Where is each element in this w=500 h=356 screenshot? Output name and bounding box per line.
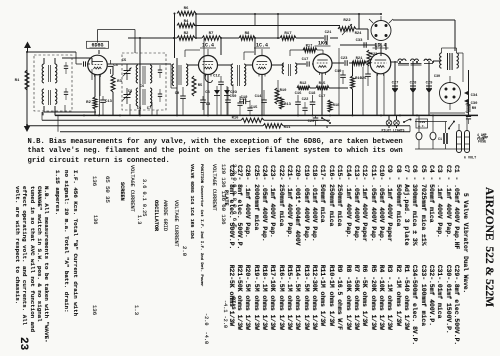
capacitor C13b xyxy=(100,99,106,101)
wire x55 stub xyxy=(54,108,56,115)
resistor R17b xyxy=(303,48,317,52)
valve 1D4 xyxy=(370,53,391,74)
IF T2 core xyxy=(237,65,239,86)
svg-text:R21: R21 xyxy=(356,57,364,61)
svg-text:C17: C17 xyxy=(302,58,310,62)
svg-text:C18: C18 xyxy=(309,92,317,96)
resistor R20 xyxy=(351,76,355,89)
capacitor C32 electrolytic xyxy=(443,133,445,144)
wire vertical x140 xyxy=(139,38,141,115)
svg-text:C25: C25 xyxy=(360,77,368,81)
capacitor C14 xyxy=(261,99,267,101)
switch corner xyxy=(449,122,454,129)
wire vertical x255 xyxy=(254,38,256,55)
wire vertical x196 xyxy=(195,14,197,39)
voltage table rotated xyxy=(91,176,97,186)
svg-text:R17: R17 xyxy=(284,32,292,36)
coil osc1 core xyxy=(142,66,144,84)
wire bus y125.8 left xyxy=(27,125,263,127)
ground arrow xyxy=(26,118,28,126)
capacitor C30 xyxy=(464,99,468,103)
choke L5 xyxy=(398,59,406,61)
resistor R18 xyxy=(328,100,332,112)
svg-text:6D8G: 6D8G xyxy=(91,43,103,49)
capacitor C21 xyxy=(324,35,326,41)
resistor R8 xyxy=(239,36,255,40)
wire y58 coil to tube xyxy=(62,57,92,59)
wire x278 drop xyxy=(277,80,279,96)
wire left bus verticals xyxy=(41,112,43,120)
wire bus y125.8 right xyxy=(283,125,410,127)
capacitor C23 xyxy=(344,60,346,66)
svg-text:C7: C7 xyxy=(147,107,152,111)
wire R3 xyxy=(112,66,114,75)
wire 6D8G cathode xyxy=(91,69,93,80)
svg-text:C4: C4 xyxy=(113,64,118,68)
wire y40 to vibrator xyxy=(356,28,368,30)
coil L1 primary xyxy=(42,64,44,83)
svg-text:C30: C30 xyxy=(434,75,440,79)
page number 23 xyxy=(18,337,28,350)
capacitor C3g xyxy=(83,61,85,66)
variable capacitor C7 xyxy=(126,88,128,95)
svg-text:C30: C30 xyxy=(471,102,479,106)
wire coil box verticals xyxy=(42,112,44,115)
capacitor C19 xyxy=(340,74,346,76)
wire x352 down xyxy=(352,63,354,76)
subtitle 5 Valve Vibrator Dual Wave xyxy=(462,193,469,293)
pilot light 2 xyxy=(394,120,400,126)
capacitor C11 xyxy=(218,81,224,83)
capacitor C27 electrolytic xyxy=(392,85,398,87)
wire top bus y14 xyxy=(196,13,381,15)
wire x322 tube bottom xyxy=(321,73,323,115)
wire IF2 to 1C4b xyxy=(246,64,252,66)
AC box xyxy=(416,119,428,128)
capacitor C13 xyxy=(237,102,242,104)
capacitor C15 xyxy=(247,107,252,109)
svg-text:C19: C19 xyxy=(335,70,343,74)
svg-text:1K6: 1K6 xyxy=(318,41,327,47)
svg-text:C29: C29 xyxy=(426,82,434,86)
svg-text:C2O: C2O xyxy=(230,91,238,95)
resistor R9 vertical xyxy=(467,103,471,113)
capacitor C22 xyxy=(302,107,307,109)
vibrator circle xyxy=(371,21,391,41)
wire antenna vertical xyxy=(26,52,28,125)
svg-text:C27: C27 xyxy=(392,82,400,86)
svg-text:C21: C21 xyxy=(325,31,333,35)
wire x413 v xyxy=(412,61,414,115)
coil pair osc1 b xyxy=(150,65,152,83)
wire top right y20 xyxy=(393,19,455,21)
svg-text:C3: C3 xyxy=(206,103,211,107)
IF transformer T3 primary xyxy=(282,63,284,74)
svg-text:R1: R1 xyxy=(15,79,20,83)
svg-text:C19: C19 xyxy=(241,96,249,100)
title AIRZONE 522 & 522M xyxy=(483,187,495,307)
wire vertical x177stub xyxy=(176,58,178,115)
junction dots xyxy=(139,37,141,39)
note NB wavechange rotated xyxy=(14,186,50,343)
wire x208 tube bottom xyxy=(207,74,209,115)
svg-text:1D.4: 1D.4 xyxy=(374,43,386,49)
pilot light 1 xyxy=(386,120,392,126)
capacitor C31r xyxy=(466,116,471,118)
resistor R23 xyxy=(367,50,371,66)
lamp oval 1 xyxy=(416,132,422,140)
svg-text:C13: C13 xyxy=(105,100,113,104)
svg-text:C22: C22 xyxy=(302,98,310,102)
wire bus y38 left xyxy=(128,37,177,39)
IF T1 core xyxy=(178,65,180,85)
wire vertical x359 xyxy=(358,14,360,29)
IF transformer T1 secondary xyxy=(186,64,188,86)
wire x204 long xyxy=(203,38,205,115)
wire chokes to transformer xyxy=(433,60,440,62)
coil cap a xyxy=(64,65,68,67)
svg-text:R12: R12 xyxy=(300,82,308,86)
capacitor C19h xyxy=(243,99,245,104)
capacitor C20 xyxy=(313,117,319,119)
trimmer cap t1 xyxy=(158,69,162,71)
svg-text:R6: R6 xyxy=(184,7,189,11)
svg-text:C5: C5 xyxy=(122,59,127,63)
wire C23 to 1D4 xyxy=(349,62,371,64)
svg-text:R22: R22 xyxy=(343,19,351,23)
svg-text:R15: R15 xyxy=(319,82,327,86)
wire 1C4b to IF3 xyxy=(272,64,284,66)
capacitor C20tri xyxy=(224,90,230,95)
svg-text:R8: R8 xyxy=(245,32,250,36)
coil L2 secondary xyxy=(55,89,57,104)
resistor R15 xyxy=(316,86,329,90)
wire x381 vibrator to 1D4 xyxy=(380,43,382,56)
capacitor C9t xyxy=(180,95,186,97)
trimmer cap t2 xyxy=(158,93,162,95)
fuse cartridge 1 xyxy=(457,131,462,153)
wire 1K6 to C23 xyxy=(332,62,344,64)
wire 1C4a grid link xyxy=(184,50,186,57)
svg-text:R16: R16 xyxy=(232,117,240,121)
wire 1C4b grid link xyxy=(243,52,245,60)
resistor R7 xyxy=(202,36,221,40)
resistor R2 xyxy=(93,97,97,109)
capacitor C4 xyxy=(110,60,112,64)
wire vertical x278t xyxy=(277,14,279,38)
wire x171 drop xyxy=(170,64,172,88)
lamp oval 2 xyxy=(430,132,436,140)
capacitor C29 electrolytic xyxy=(426,85,432,87)
wire IF3 to 1K6 xyxy=(297,63,306,65)
wire tuning verticals xyxy=(129,104,131,115)
choke L7 xyxy=(424,59,431,61)
svg-text:R11: R11 xyxy=(284,126,292,130)
switch SW xyxy=(322,118,329,122)
svg-text:C17: C17 xyxy=(319,95,327,99)
valve 1K6 xyxy=(313,54,332,73)
wire 6D8G top loop xyxy=(97,30,99,43)
coil pair osc1 a xyxy=(136,65,138,83)
svg-text:C23: C23 xyxy=(341,57,349,61)
wire IF1 to 1C4a xyxy=(187,64,198,66)
svg-text:R2: R2 xyxy=(184,32,189,36)
wire vertical x221 xyxy=(220,38,222,55)
wire vertical x174 xyxy=(174,14,176,39)
coil pair osc2 b xyxy=(150,88,152,106)
svg-text:R23: R23 xyxy=(371,53,379,57)
svg-text:R24: R24 xyxy=(355,32,363,36)
svg-text:R2: R2 xyxy=(86,101,91,105)
wire bus y38 right xyxy=(330,37,338,39)
wire vertical x327 xyxy=(326,41,328,45)
capacitor C34 xyxy=(464,91,468,95)
svg-text:R13: R13 xyxy=(284,103,292,107)
capacitor C17c xyxy=(306,61,308,66)
wire bus y38 mid3 xyxy=(255,37,280,39)
capacitor C10t xyxy=(225,99,231,101)
wire x92 stub xyxy=(91,58,93,64)
wire 1C4a to IF2 xyxy=(217,64,231,66)
wire long vert x363 xyxy=(362,67,364,115)
wire 6D8G plate to IF1 xyxy=(108,63,171,65)
svg-text:1C.4: 1C.4 xyxy=(256,43,268,49)
potentiometer R24 xyxy=(338,27,356,31)
coil L2 primary xyxy=(42,89,44,104)
svg-text:C8: C8 xyxy=(128,90,133,94)
rectifier tube xyxy=(440,83,461,104)
wire x262 top xyxy=(261,49,263,56)
svg-text:C28: C28 xyxy=(410,82,418,86)
svg-text:C6: C6 xyxy=(140,85,145,89)
valve 1C4 first xyxy=(199,56,218,75)
wire main B- bus y115.4 xyxy=(55,114,478,116)
wire bus y38 mid1 xyxy=(195,37,202,39)
coil L1 core xyxy=(48,65,50,82)
coil pair osc2 a xyxy=(136,88,138,106)
wire 1K6 top xyxy=(317,49,323,51)
svg-text:R7: R7 xyxy=(209,32,214,36)
svg-text:6 VOLT: 6 VOLT xyxy=(464,157,476,161)
svg-text:C34: C34 xyxy=(471,94,479,98)
wire bus y120.3 xyxy=(42,119,241,121)
svg-text:R3: R3 xyxy=(117,80,122,84)
svg-text:FUSE: FUSE xyxy=(478,141,486,145)
wire vertical 6D8G top xyxy=(98,50,100,54)
svg-text:C9: C9 xyxy=(175,92,180,96)
wire right edge x468 xyxy=(468,70,470,115)
wire 6D8G left grid xyxy=(27,51,76,53)
dashed box antenna coils xyxy=(34,55,72,111)
resistor R11 horizontal xyxy=(263,124,283,128)
coil cap b xyxy=(64,91,68,93)
svg-text:C8: C8 xyxy=(205,91,210,95)
capacitor C8tri xyxy=(214,90,220,95)
capacitor C25 xyxy=(365,73,371,75)
svg-text:PILOT LIGHTS: PILOT LIGHTS xyxy=(382,129,405,133)
notes IF alignment rotated xyxy=(72,170,78,316)
coil L1 secondary xyxy=(55,64,57,83)
resistor R17 xyxy=(280,36,296,40)
wire vertical x255t xyxy=(254,14,256,26)
resistor R21 xyxy=(352,61,366,65)
svg-text:C6: C6 xyxy=(137,107,142,111)
svg-text:R5: R5 xyxy=(198,84,203,88)
svg-text:C20: C20 xyxy=(308,120,316,124)
wire y88 xyxy=(310,87,316,89)
antenna terminal xyxy=(24,42,31,49)
wire bus y38 mid4 xyxy=(296,37,324,39)
wire long vert x339 xyxy=(338,48,340,115)
svg-text:R17: R17 xyxy=(306,45,314,49)
capacitor C16 xyxy=(295,101,301,103)
parts list capacitors and resistors xyxy=(226,165,460,345)
resistor R13 xyxy=(280,97,284,109)
wire y45 C33 link xyxy=(340,44,376,46)
wire 1K6 grid link xyxy=(289,50,291,56)
valve 1C4 second xyxy=(253,56,272,75)
wire coil tops xyxy=(43,58,45,64)
wire x99 tube bottom xyxy=(99,75,101,115)
svg-text:C14: C14 xyxy=(255,95,263,99)
svg-text:C10: C10 xyxy=(230,95,238,99)
wire transformer right xyxy=(458,52,463,54)
wire bus y38 mid2 xyxy=(221,37,239,39)
fuse cartridge 2 xyxy=(465,131,470,153)
svg-text:C16: C16 xyxy=(295,92,303,96)
resistor R4 xyxy=(177,23,195,27)
wire x381 tube bottom xyxy=(376,74,378,115)
resistor R16 horizontal xyxy=(241,118,264,122)
note NB bias paragraph xyxy=(28,138,403,166)
choke L6 xyxy=(411,59,419,61)
cathode hook 1C4a xyxy=(205,75,212,83)
svg-text:C12: C12 xyxy=(213,75,221,79)
resistor R5v xyxy=(192,76,196,96)
capacitor C3 xyxy=(200,99,206,101)
wire right edge x478 xyxy=(430,112,465,114)
wire pilot xyxy=(388,115,390,120)
resistor R1 xyxy=(25,70,29,90)
IF transformer T2 secondary xyxy=(244,64,246,86)
IF T3 core xyxy=(288,64,290,76)
resistor R12 xyxy=(297,86,310,90)
wire coils join xyxy=(44,111,96,113)
coil osc2 core xyxy=(142,89,144,105)
svg-text:S: S xyxy=(326,126,328,130)
IF transformer T3 secondary xyxy=(295,63,297,74)
variable capacitor C5 xyxy=(126,64,128,71)
coil L2 core xyxy=(48,90,50,105)
wire x208 top xyxy=(207,49,209,56)
wire 1D4 to chokes xyxy=(391,61,398,63)
switch filament xyxy=(404,119,410,122)
wire x395 v xyxy=(394,61,396,115)
wire top bus y25.5 xyxy=(194,25,340,27)
power transformer xyxy=(440,53,442,68)
wire bus y131.7 xyxy=(60,131,410,133)
dashed box tuning gang xyxy=(122,53,166,110)
wire x233 drop xyxy=(232,84,234,96)
wire x429 v xyxy=(428,61,430,115)
svg-text:R10: R10 xyxy=(280,89,288,93)
valve 6D8G xyxy=(88,55,108,75)
svg-text:R4: R4 xyxy=(184,20,189,24)
wire R2 xyxy=(94,75,96,97)
IF transformer T1 primary xyxy=(172,64,174,86)
resistor R3 xyxy=(111,75,115,92)
wire vibrator down right xyxy=(385,43,387,50)
wire corner top xyxy=(415,121,447,123)
svg-text:C33: C33 xyxy=(356,39,364,43)
IF transformer T2 primary xyxy=(231,64,233,86)
svg-text:R9: R9 xyxy=(472,107,477,111)
wire corner bottom xyxy=(415,148,470,150)
resistor R6 xyxy=(177,11,196,15)
svg-text:C1: C1 xyxy=(438,138,442,142)
resistor R2b xyxy=(177,36,195,40)
wire vibrator down left xyxy=(375,43,377,50)
capacitor C28 electrolytic xyxy=(410,85,416,87)
capacitor C33 xyxy=(363,42,365,48)
resistor R10 xyxy=(275,88,279,104)
wire x262 tube bottom xyxy=(261,74,263,115)
capacitor C18 xyxy=(310,101,316,103)
